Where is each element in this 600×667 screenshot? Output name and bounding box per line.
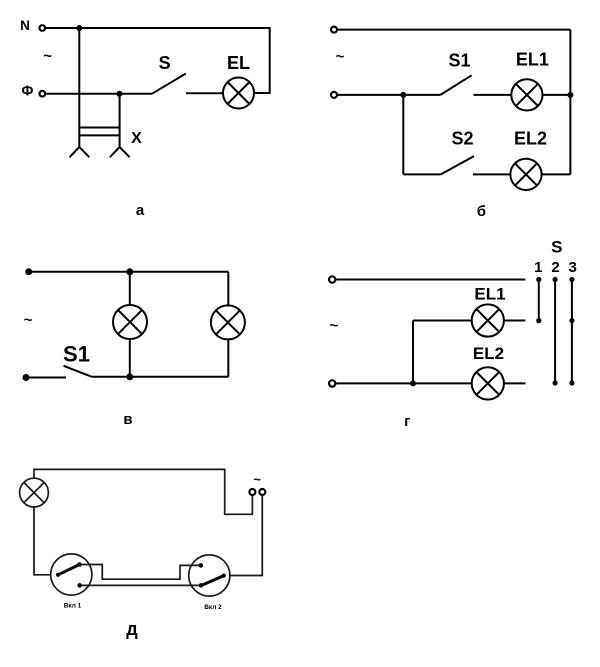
wire v top	[29, 271, 229, 273]
svg-text:г: г	[404, 413, 410, 430]
lamp EL2 (g)	[472, 367, 504, 399]
wire g bottom	[336, 382, 472, 384]
svg-text:X: X	[131, 130, 142, 147]
switch S1 lever	[440, 75, 471, 95]
terminal F	[40, 91, 46, 97]
svg-text:1: 1	[534, 259, 542, 276]
switch S2 lever	[441, 156, 474, 174]
terminal N	[40, 25, 46, 31]
switch Vkl1 contacts	[56, 562, 82, 588]
switch pole 1	[536, 277, 541, 323]
svg-text:~: ~	[43, 48, 52, 65]
svg-text:3: 3	[569, 259, 577, 276]
lamp EL1	[511, 79, 542, 110]
wire g EL2 right	[504, 382, 526, 384]
plug connector X right pin	[110, 94, 130, 158]
svg-text:2: 2	[551, 259, 559, 276]
wire g EL1 left	[413, 320, 472, 322]
wire traveller upper	[80, 565, 201, 580]
svg-text:б: б	[477, 203, 486, 220]
terminal d left	[249, 489, 255, 495]
svg-text:S1: S1	[63, 342, 90, 367]
wire v bottom	[92, 376, 228, 378]
terminal g bottom	[329, 380, 335, 386]
wire v bottom-left	[26, 377, 66, 379]
svg-text:а: а	[136, 202, 145, 219]
svg-text:S2: S2	[451, 129, 473, 149]
wire EL2 to right	[542, 173, 571, 175]
switch S lever	[152, 74, 186, 94]
svg-text:S1: S1	[448, 51, 470, 71]
wire S1 to EL1	[474, 94, 512, 96]
wire v lamp1 top	[129, 272, 131, 305]
switch Vkl2 contacts	[199, 563, 226, 588]
svg-text:EL2: EL2	[514, 129, 547, 149]
wire b right vertical	[569, 30, 571, 175]
wire v right branch	[227, 272, 229, 377]
wire d lamp top to supply	[34, 469, 252, 514]
wire F phase	[46, 93, 153, 95]
svg-text:S: S	[551, 238, 562, 257]
wire g branch vertical	[412, 321, 414, 384]
junction on F wire	[116, 91, 122, 97]
switch pole 2	[553, 277, 558, 386]
wire d supply to switch 2	[230, 495, 262, 575]
wire v lamp1 bottom	[129, 339, 131, 377]
terminal b top	[331, 27, 337, 33]
svg-text:Вкл 1: Вкл 1	[64, 603, 82, 610]
terminal v bottom	[23, 374, 30, 381]
wire N top	[46, 27, 270, 29]
switch Vkl2 body	[189, 555, 230, 596]
switch S1 lever (v)	[64, 366, 93, 377]
lamp v2	[211, 305, 245, 339]
svg-text:S: S	[159, 53, 171, 73]
svg-text:EL1: EL1	[474, 285, 505, 304]
wire switch to lamp EL	[186, 92, 223, 94]
svg-text:~: ~	[24, 312, 33, 329]
switch Vkl1 body	[51, 554, 92, 595]
terminal d right	[259, 489, 265, 495]
wire g EL1 right	[504, 320, 526, 322]
svg-text:Вкл 2: Вкл 2	[204, 604, 222, 611]
wire traveller lower	[80, 584, 201, 586]
wire g top	[336, 279, 526, 281]
terminal b bottom	[331, 92, 337, 98]
plug socket bars	[79, 128, 119, 136]
junction g	[410, 380, 416, 386]
junction on N wire	[76, 25, 82, 31]
junction v top	[126, 268, 133, 275]
lamp EL1 (g)	[472, 304, 504, 336]
svg-text:EL: EL	[227, 53, 250, 73]
svg-text:в: в	[123, 411, 132, 428]
svg-text:N: N	[20, 18, 30, 33]
junction b	[400, 92, 406, 98]
wire b top	[338, 29, 571, 31]
lamp v1	[113, 305, 147, 339]
lamp EL	[223, 78, 254, 109]
wire b phase	[338, 94, 441, 96]
wire b lower row	[403, 173, 441, 175]
svg-text:д: д	[126, 619, 138, 639]
wire lamp EL to N	[254, 27, 270, 94]
svg-text:~: ~	[330, 318, 339, 335]
terminal v top	[25, 268, 32, 275]
wire EL1 to right	[543, 94, 571, 96]
junction b right	[567, 92, 573, 98]
svg-text:EL1: EL1	[516, 50, 549, 70]
lamp d	[20, 478, 49, 507]
junction v bottom	[126, 373, 133, 380]
svg-text:~: ~	[336, 49, 345, 66]
terminal g top	[329, 276, 335, 282]
svg-text:EL2: EL2	[473, 344, 504, 363]
lamp EL2 (b)	[510, 159, 541, 190]
wire d lamp bottom to switch 1	[34, 507, 51, 575]
switch pole 3	[569, 277, 574, 386]
plug connector X left pin	[70, 28, 90, 157]
wire S2 to EL2	[473, 173, 510, 175]
svg-text:~: ~	[253, 472, 261, 487]
wire b branch vertical	[402, 95, 404, 174]
svg-text:Φ: Φ	[22, 84, 34, 100]
